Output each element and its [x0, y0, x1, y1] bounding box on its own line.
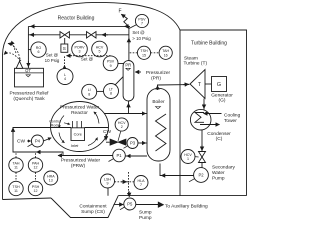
svg-text:Pressurizer: Pressurizer — [146, 70, 171, 76]
instrument TAH-11 — [9, 158, 23, 172]
svg-text:(G): (G) — [219, 98, 226, 104]
instrument RO-6 — [31, 42, 46, 57]
svg-text:4: 4 — [64, 77, 66, 81]
flow arrow inside reactor lower-left — [59, 133, 65, 143]
svg-text:Tower: Tower — [224, 118, 237, 124]
pump P2 secondary water pump — [194, 168, 209, 183]
reactor vessel (pressurized water reactor) — [51, 102, 109, 152]
boiler level mark — [156, 107, 161, 109]
svg-text:Sump (CS): Sump (CS) — [81, 209, 105, 215]
svg-text:11: 11 — [14, 189, 18, 193]
instrument TAH-16 — [159, 46, 172, 59]
svg-text:8: 8 — [88, 92, 90, 96]
indicator light L-4 link — [64, 65, 66, 68]
svg-text:Cooling: Cooling — [224, 112, 241, 118]
wire: dashed PAH-12 to PSH-12 — [35, 172, 37, 181]
wire: quench tank drain vertical — [27, 26, 29, 68]
svg-text:S: S — [63, 46, 66, 51]
svg-text:Containment: Containment — [79, 203, 107, 209]
svg-text:P1: P1 — [116, 153, 122, 158]
wire: dashed interlock down to sump pump P5 — [128, 172, 130, 195]
svg-text:Reactor: Reactor — [71, 110, 88, 116]
svg-text:8: 8 — [110, 92, 112, 96]
boiler coil zigzag — [156, 114, 167, 151]
instrument HCV-2 — [115, 118, 128, 131]
svg-text:6: 6 — [38, 50, 40, 54]
svg-text:P2: P2 — [198, 173, 204, 178]
svg-text:(Quench) Tank: (Quench) Tank — [13, 96, 45, 102]
flow arrow inside reactor right up — [94, 112, 99, 124]
svg-text:1: 1 — [187, 157, 189, 161]
svg-text:Inlet: Inlet — [71, 143, 79, 148]
svg-text:Set @: Set @ — [132, 30, 145, 35]
condenser internal sigma coil — [195, 113, 204, 123]
svg-text:Set @: Set @ — [81, 57, 94, 62]
svg-text:QT: QT — [25, 68, 31, 73]
stem valve to HCV-2 bubble — [118, 131, 121, 141]
wire: P4 to reactor — [43, 138, 51, 141]
svg-text:CW: CW — [103, 129, 111, 135]
svg-text:Rods: Rods — [51, 123, 60, 127]
containment floor right — [118, 195, 246, 197]
svg-text:(PRW): (PRW) — [71, 163, 86, 169]
wire: cold leg P1 to reactor inlet — [13, 128, 113, 156]
valve HCV-2 (feed valve) — [110, 139, 126, 145]
pump P3 — [127, 138, 138, 149]
svg-text:9: 9 — [107, 182, 109, 186]
svg-text:5: 5 — [99, 50, 101, 54]
pressurizer vessel PR — [123, 61, 134, 102]
wire: dashed TSH-15 to riser — [129, 52, 137, 54]
svg-text:Pressurized Water: Pressurized Water — [61, 158, 101, 164]
wire: dashed TAH-11 tap — [15, 152, 17, 157]
wire: LSH-9 tap to sump — [107, 188, 109, 196]
svg-text:15: 15 — [142, 53, 146, 57]
svg-text:Pump: Pump — [139, 215, 152, 221]
turbine building box — [180, 30, 247, 196]
svg-text:11: 11 — [14, 166, 18, 170]
baffle line left / inlet line inside — [51, 127, 71, 129]
instrument HLA-7 — [134, 176, 148, 190]
level mark in pressurizer — [126, 68, 131, 70]
control rods label arrow — [64, 123, 70, 125]
vent zigzag to atmosphere F — [121, 14, 129, 26]
svg-text:13: 13 — [49, 179, 53, 183]
svg-text:P4: P4 — [35, 139, 41, 144]
wire: PORV discharge header line2 — [28, 34, 128, 36]
svg-text:PR: PR — [125, 62, 131, 67]
instrument bubble texts — [12, 17, 204, 206]
wire: steam line boiler to turbine — [158, 85, 190, 89]
wire: surge line pressurizer to hot leg — [128, 101, 130, 114]
svg-text:Pressurized Water: Pressurized Water — [60, 105, 100, 111]
svg-text:To Auxiliary Building: To Auxiliary Building — [165, 203, 208, 209]
svg-text:P3: P3 — [130, 141, 136, 146]
svg-text:Set @: Set @ — [46, 53, 59, 58]
svg-text:12: 12 — [34, 189, 38, 193]
core box — [71, 128, 85, 141]
instrument LT-8 — [104, 84, 119, 99]
wire: turbine to generator — [205, 83, 212, 85]
wire: PSV-9 to pressurizer stub — [118, 63, 124, 65]
control rods — [73, 121, 82, 128]
pressurized relief (quench) tank QT — [15, 68, 44, 87]
restricting orifice RO-6 stub — [28, 49, 31, 51]
svg-text:Boiler: Boiler — [152, 99, 165, 105]
svg-text:2: 2 — [121, 125, 123, 129]
steam turbine T triangle — [190, 70, 205, 99]
svg-text:7: 7 — [140, 183, 142, 187]
solenoid S box — [61, 44, 68, 52]
svg-text:Condenser: Condenser — [207, 131, 231, 137]
wire: cooling tower supply into condenser — [204, 113, 222, 115]
relief valve PSV-7 connector — [129, 24, 137, 28]
wire: condenser to HCV-1 valve — [201, 130, 203, 152]
instrument PSV-7 — [135, 14, 148, 27]
instrument L-4 — [57, 69, 73, 85]
instrument PSH-12 — [28, 181, 42, 195]
instrument TSH-11 — [9, 181, 23, 195]
wire: solenoid signal dashed — [68, 55, 111, 57]
valve PORV (block valve with solenoid) — [60, 32, 69, 38]
pump P5 sump pump — [124, 198, 136, 210]
svg-text:(C): (C) — [216, 136, 223, 142]
svg-text:10 Psig: 10 Psig — [45, 58, 60, 63]
svg-text:> 10 Psig: > 10 Psig — [132, 36, 151, 41]
instrument LSH-9 — [101, 174, 115, 188]
wire: valve to P2 — [201, 163, 203, 168]
svg-text:Turbine (T): Turbine (T) — [184, 60, 208, 66]
svg-text:Core: Core — [74, 133, 82, 137]
generator G box — [212, 77, 227, 92]
svg-text:F: F — [119, 9, 122, 15]
svg-text:Turbine Building: Turbine Building — [191, 41, 227, 47]
spray arrows from relief — [4, 53, 21, 61]
wire: condenser return to cooling tower — [200, 124, 220, 126]
instrument TSH-15 — [137, 46, 150, 59]
wire: dashed TAH-11 to TSH-11 — [15, 172, 17, 181]
CW label arrow to P4 — [27, 140, 31, 142]
svg-text:Pressurized Relief: Pressurized Relief — [10, 91, 50, 97]
valve HCV-1 — [199, 152, 206, 163]
svg-text:12: 12 — [34, 166, 38, 170]
instrument PAH-12 — [28, 158, 42, 172]
CW makeup stub to HCV-2 valve — [105, 134, 107, 140]
relief valve on quench tank — [16, 61, 23, 68]
svg-text:CW: CW — [17, 138, 25, 144]
containment floor left — [3, 198, 52, 200]
svg-text:3: 3 — [79, 50, 81, 54]
pump P1 — [113, 149, 126, 162]
wire: P3 to boiler — [138, 142, 147, 144]
instrument LI-8 — [82, 84, 97, 99]
svg-text:16: 16 — [164, 53, 168, 57]
wire: dashed TSH-15 to TAH-16 — [151, 52, 159, 54]
wire: cold leg boiler to P1 — [126, 155, 147, 157]
svg-text:Water: Water — [212, 170, 225, 176]
svg-text:Reactor Building: Reactor Building — [58, 16, 95, 22]
svg-text:9: 9 — [110, 64, 112, 68]
instrument HCV-1 — [181, 150, 195, 164]
flow arrow inside reactor left down — [59, 116, 64, 129]
svg-text:G: G — [217, 82, 221, 88]
instrument PSV-9 — [103, 56, 118, 71]
wire: pressurizer relief riser — [128, 26, 130, 60]
wire: turbine exhaust to condenser — [203, 99, 205, 110]
svg-text:Pump: Pump — [212, 176, 225, 182]
instrument PORV-3 — [72, 41, 88, 57]
baffle line right — [85, 127, 109, 129]
flow arrow inside reactor bottom-right up — [88, 138, 98, 146]
instrument HCV-5 — [92, 41, 108, 57]
svg-text:Secondary: Secondary — [212, 165, 236, 171]
pressurizer label arrow — [135, 71, 141, 73]
svg-text:Sump: Sump — [139, 210, 152, 216]
valve HCV-5 block valve — [87, 32, 97, 38]
wire: dashed PAH-12 tap — [35, 152, 37, 157]
wire: sump suction to P5 — [114, 204, 124, 206]
instrument HRA-13 — [44, 171, 58, 185]
containment sump (CS) trapezoid — [51, 196, 118, 218]
wire: PSV discharge header line1 — [28, 25, 128, 27]
wire: P2 discharge to boiler bottom — [160, 164, 194, 176]
svg-text:7: 7 — [141, 22, 143, 26]
wire: hot leg reactor to boiler — [104, 113, 147, 115]
pump P4 — [31, 135, 43, 147]
boiler vessel — [147, 88, 170, 161]
wire: dashed LSH-9 to HLA-7 — [115, 181, 135, 183]
svg-text:(PR): (PR) — [151, 75, 161, 81]
wire: LT-8 tap to pressurizer — [115, 77, 124, 86]
containment building outline — [3, 2, 181, 199]
condenser circle — [190, 109, 211, 130]
svg-text:P5: P5 — [127, 202, 133, 207]
wire: stem valve to solenoid S — [64, 38, 66, 44]
wire: P5 to auxiliary building — [136, 204, 158, 206]
wire: LI-8 to LT-8 link — [97, 90, 104, 92]
